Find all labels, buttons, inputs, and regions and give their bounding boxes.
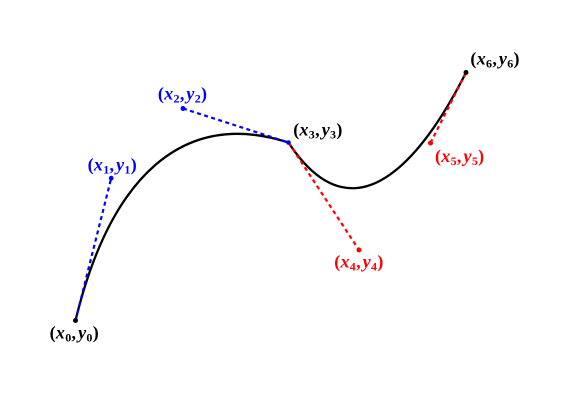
wire: blue dashed control line P2-P3 <box>183 109 289 143</box>
node P3 (x3,y3) <box>286 140 291 145</box>
wire: red dashed control line P5-P6 <box>431 73 467 144</box>
wire: red dashed control line P3-P4 <box>289 143 360 251</box>
wire: black Bezier curve, two cubic segments <box>76 73 467 321</box>
node P5 (x5,y5) <box>428 141 433 146</box>
node P4 (x4,y4) <box>357 248 362 253</box>
wire: blue dashed control line P0-P1 <box>76 178 112 320</box>
node P6 (x6,y6) <box>464 70 469 75</box>
node P2 (x2,y2) <box>181 106 186 111</box>
node P0 (x0,y0) <box>73 318 78 323</box>
node P1 (x1,y1) <box>109 176 114 181</box>
